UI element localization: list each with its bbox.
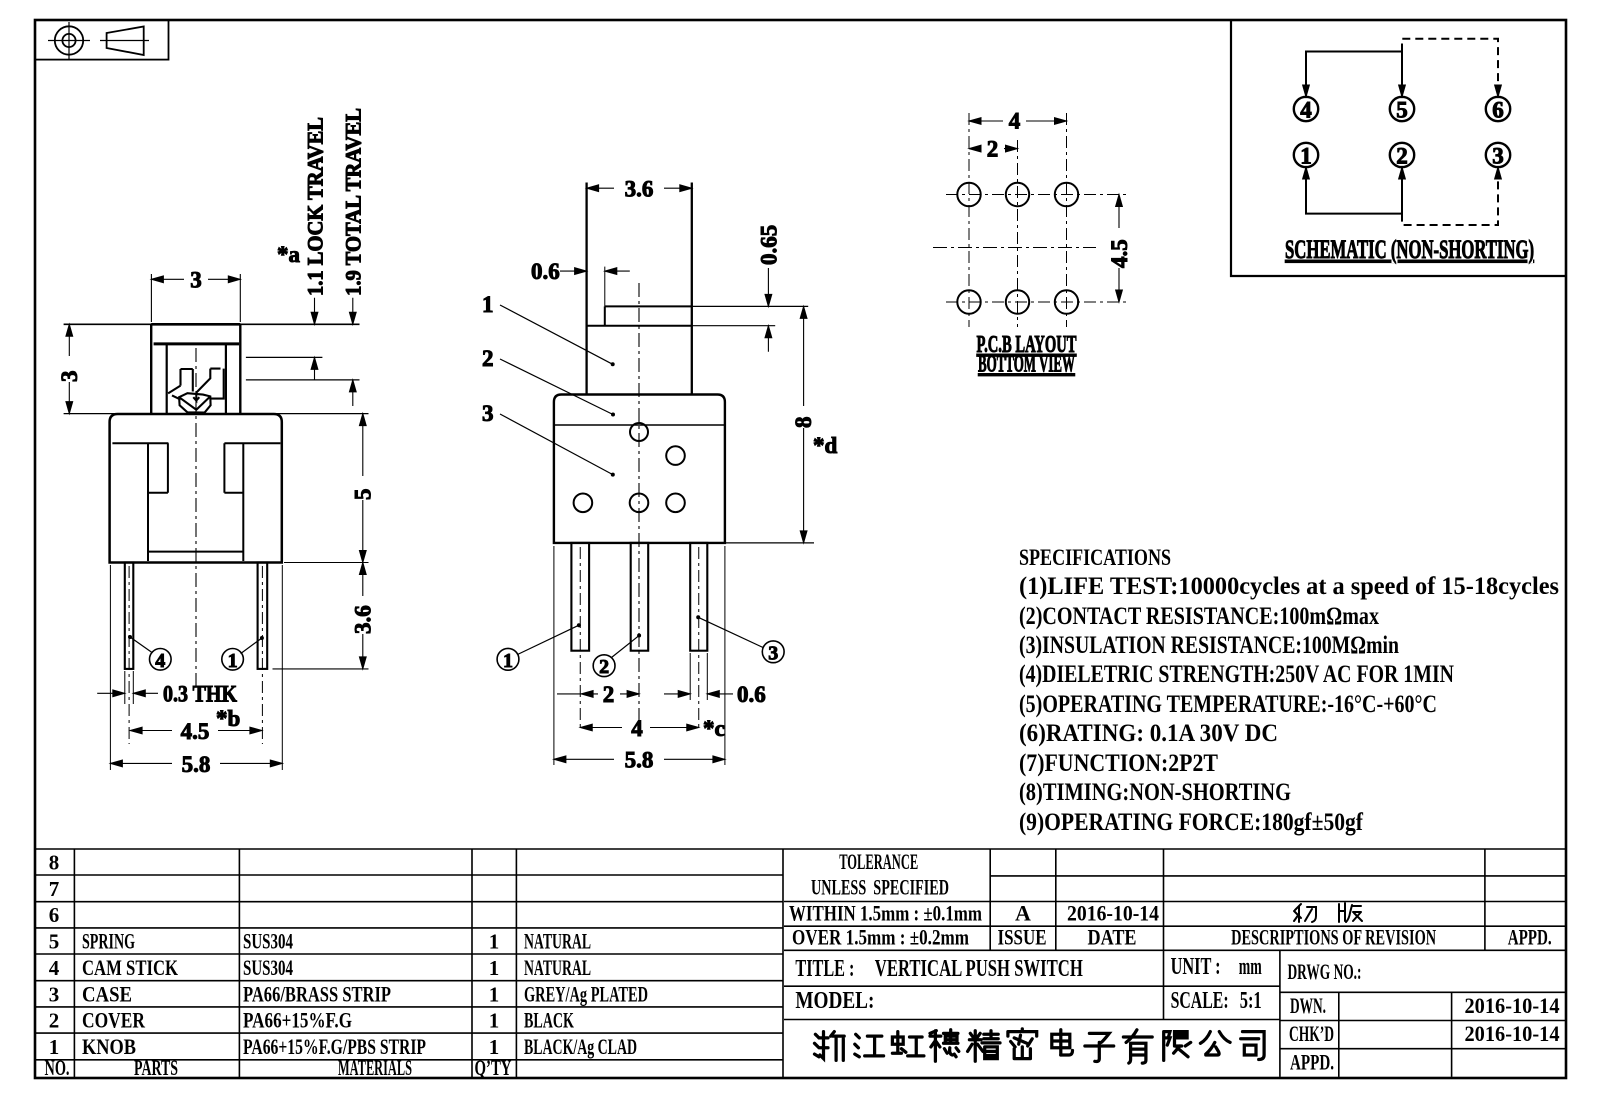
svg-text:5.8: 5.8 [182, 752, 211, 777]
leg centerlines [129, 566, 262, 744]
svg-text:CAM STICK: CAM STICK [82, 955, 178, 980]
side view leg 2 [631, 543, 649, 651]
svg-text:mm: mm [1239, 954, 1262, 980]
svg-text:4.5: 4.5 [181, 719, 210, 744]
svg-text:ISSUE: ISSUE [998, 925, 1047, 950]
company name char 虹 [892, 1032, 924, 1056]
dimension 2 (side legs) [557, 693, 639, 695]
svg-text:5.8: 5.8 [625, 748, 654, 773]
svg-text:DWN.: DWN. [1290, 993, 1326, 1018]
svg-text:*d: *d [813, 433, 838, 458]
side view leg 3 [690, 543, 707, 651]
front view case [110, 414, 282, 563]
svg-text:2016-10-14: 2016-10-14 [1465, 993, 1560, 1018]
dimension 5.8 (front) [110, 565, 282, 770]
svg-text:UNLESS SPECIFIED: UNLESS SPECIFIED [811, 875, 949, 900]
svg-text:(4)DIELETRIC STRENGTH:250V AC: (4)DIELETRIC STRENGTH:250V AC FOR 1MIN [1019, 661, 1454, 688]
svg-text:2: 2 [1396, 144, 1408, 169]
side view knob shaft [587, 183, 692, 395]
case hole right upper [666, 446, 685, 465]
case bottom extension line [725, 542, 814, 544]
svg-text:*b: *b [216, 706, 240, 731]
svg-text:1: 1 [489, 956, 500, 980]
wire 4 to 5 solid [1306, 52, 1402, 98]
pcb pad 2 [1006, 290, 1029, 313]
callout circle 1 (side) [518, 625, 579, 654]
svg-text:(2)CONTACT RESISTANCE:100mΩmax: (2)CONTACT RESISTANCE:100mΩmax [1019, 603, 1379, 630]
svg-text:(3)INSULATION RESISTANCE:100MΩ: (3)INSULATION RESISTANCE:100MΩmin [1019, 632, 1399, 659]
callout circle 3 (side) [698, 617, 763, 647]
company name char 司 [1241, 1032, 1264, 1060]
svg-text:(1)LIFE TEST:10000cycles at a: (1)LIFE TEST:10000cycles at a speed of 1… [1019, 573, 1559, 600]
pcb pad 4 [957, 183, 980, 206]
svg-text:2: 2 [482, 346, 494, 371]
callout circle 4 [130, 637, 152, 653]
case hole left [574, 494, 593, 513]
pin 5 [1390, 97, 1414, 121]
dimension 0.3 THK [125, 671, 134, 704]
svg-text:4: 4 [155, 650, 165, 672]
wire 5 to 6 dashed [1402, 39, 1498, 84]
svg-text:2016-10-14: 2016-10-14 [1465, 1021, 1560, 1046]
case hole center [630, 494, 649, 513]
svg-text:MATERIALS: MATERIALS [338, 1055, 412, 1080]
svg-text:3: 3 [57, 371, 82, 383]
svg-text:4.5: 4.5 [1107, 239, 1132, 268]
svg-text:3: 3 [482, 401, 494, 426]
svg-text:0.6: 0.6 [531, 259, 560, 284]
projection symbol cone [107, 27, 144, 56]
svg-text:2: 2 [603, 682, 615, 707]
company name char 江 [855, 1034, 884, 1057]
side view case [554, 395, 725, 543]
svg-text:5: 5 [49, 930, 60, 954]
parts table grid [35, 849, 1566, 1060]
svg-text:UNIT :: UNIT : [1171, 954, 1221, 980]
svg-text:KNOB: KNOB [82, 1034, 136, 1059]
reference line case top [64, 413, 369, 415]
side leg centerlines [580, 547, 699, 728]
dimension 4 *c [580, 727, 699, 729]
svg-text:8: 8 [49, 851, 60, 875]
svg-text:NATURAL: NATURAL [524, 929, 591, 954]
svg-text:1: 1 [489, 1009, 500, 1033]
svg-text:SUS304: SUS304 [243, 929, 293, 954]
pin 1 [1294, 143, 1318, 167]
svg-text:DRWG NO.:: DRWG NO.: [1288, 959, 1362, 984]
dimension 1.9 total travel [352, 298, 354, 406]
company name char 限 [1164, 1032, 1191, 1061]
svg-text:(6)RATING: 0.1A 30V DC: (6)RATING: 0.1A 30V DC [1019, 720, 1278, 747]
svg-text:1: 1 [489, 983, 500, 1007]
company name char 密 [1008, 1029, 1037, 1059]
svg-text:SCHEMATIC (NON-SHORTING): SCHEMATIC (NON-SHORTING) [1285, 235, 1534, 264]
dimension 2 (pcb) [969, 148, 1018, 150]
dimension 8 *d [803, 306, 805, 543]
svg-text:COVER: COVER [82, 1008, 146, 1033]
svg-text:0.65: 0.65 [757, 225, 782, 265]
svg-text:1: 1 [482, 292, 494, 317]
svg-text:5: 5 [351, 489, 376, 501]
dimension 0.65 [767, 268, 769, 352]
svg-text:3.6: 3.6 [625, 176, 654, 201]
dimension 5.8 (side) [554, 546, 725, 765]
company name char 穗 [930, 1030, 959, 1062]
svg-text:2: 2 [599, 656, 609, 678]
company name char 浙 [815, 1032, 845, 1061]
svg-text:3: 3 [49, 983, 60, 1007]
svg-text:(5)OPERATING TEMPERATURE:-16°C: (5)OPERATING TEMPERATURE:-16°C-+60°C [1019, 691, 1437, 718]
company name char 子 [1085, 1033, 1114, 1061]
svg-text:1: 1 [503, 650, 513, 672]
svg-text:0.3 THK: 0.3 THK [163, 682, 237, 707]
svg-text:7: 7 [49, 877, 60, 901]
svg-text:PARTS: PARTS [134, 1055, 178, 1080]
pcb pad centerlines vertical [968, 113, 970, 327]
svg-text:APPD.: APPD. [1290, 1050, 1334, 1075]
dimension 0.6 (step) [604, 267, 606, 307]
cover parting line [554, 424, 725, 426]
svg-text:3: 3 [768, 642, 778, 664]
svg-text:TOLERANCE: TOLERANCE [839, 849, 918, 874]
front view centerline [195, 348, 197, 686]
svg-text:1.9 TOTAL TRAVEL: 1.9 TOTAL TRAVEL [341, 108, 366, 296]
svg-text:1: 1 [489, 930, 500, 954]
front view knob inner walls [167, 344, 226, 414]
svg-text:A: A [1015, 901, 1031, 926]
svg-text:1: 1 [1300, 144, 1312, 169]
dimension 4.5 (pcb) [1118, 195, 1120, 303]
svg-text:5: 5 [1396, 98, 1408, 123]
svg-text:4: 4 [1009, 109, 1021, 134]
svg-text:DESCRIPTIONS OF REVISION: DESCRIPTIONS OF REVISION [1231, 925, 1436, 950]
svg-text:SUS304: SUS304 [243, 955, 293, 980]
projection symbol circle [55, 26, 83, 54]
svg-text:0.6: 0.6 [737, 682, 766, 707]
travel reference line C [246, 379, 360, 381]
revision text CJK: 初 [1294, 904, 1316, 922]
svg-text:1: 1 [228, 650, 238, 672]
side view centerline [638, 283, 640, 731]
front view leg 1 [258, 563, 268, 669]
dimension 3.6 (leg length) [273, 668, 369, 670]
pcb pad 6 [1055, 183, 1078, 206]
dimension 4 (pcb) [969, 120, 1067, 122]
dimension 3 (knob height, left) [68, 324, 70, 413]
svg-text:VERTICAL PUSH SWITCH: VERTICAL PUSH SWITCH [875, 956, 1083, 982]
svg-text:*a: *a [277, 242, 301, 267]
svg-text:Q’TY: Q’TY [475, 1055, 512, 1080]
svg-text:BLACK/Ag CLAD: BLACK/Ag CLAD [524, 1034, 637, 1059]
projection symbol box [35, 20, 169, 60]
pin 4 [1294, 97, 1318, 121]
callout circle 2 (side) [612, 636, 640, 658]
svg-text:1.1 LOCK TRAVEL: 1.1 LOCK TRAVEL [303, 117, 328, 296]
svg-text:SPECIFICATIONS: SPECIFICATIONS [1019, 545, 1171, 570]
wire 1 to 2 solid [1306, 167, 1402, 214]
svg-text:4: 4 [1300, 98, 1312, 123]
dimension 4.5 *b [130, 730, 262, 732]
dimension 5 (case height) [284, 562, 369, 564]
svg-text:2016-10-14: 2016-10-14 [1067, 901, 1159, 926]
svg-text:PA66/BRASS STRIP: PA66/BRASS STRIP [243, 982, 391, 1007]
svg-text:SPRING: SPRING [82, 929, 135, 954]
company name char 有 [1123, 1030, 1152, 1063]
svg-text:CASE: CASE [82, 982, 132, 1007]
company name char 精 [968, 1031, 1000, 1062]
case inner terminals [112, 443, 280, 561]
wire 2 to 3 dashed [1402, 180, 1498, 225]
svg-text:SCALE:: SCALE: [1171, 988, 1229, 1014]
pin 3 [1486, 143, 1510, 167]
svg-text:BOTTOM VIEW: BOTTOM VIEW [978, 352, 1075, 378]
svg-text:TITLE :: TITLE : [795, 956, 854, 982]
travel reference line B [246, 356, 323, 358]
svg-text:3: 3 [190, 268, 202, 293]
svg-text:PA66+15%F.G: PA66+15%F.G [243, 1008, 352, 1033]
svg-text:4: 4 [631, 716, 643, 741]
svg-text:4: 4 [49, 956, 60, 980]
revision text CJK: 版 [1339, 903, 1362, 922]
svg-text:APPD.: APPD. [1508, 925, 1552, 950]
dimension 3.6 (shaft width) [587, 187, 692, 189]
side view leg 1 [571, 543, 589, 651]
svg-text:8: 8 [791, 417, 816, 429]
case hole right lower [666, 494, 685, 513]
cam stick mechanism [168, 369, 224, 413]
pcb pad 1 [957, 290, 980, 313]
svg-text:NO.: NO. [45, 1055, 70, 1080]
svg-text:*c: *c [703, 716, 725, 741]
pin 6 [1486, 97, 1510, 121]
company name char 电 [1052, 1030, 1073, 1055]
schematic box [1231, 20, 1566, 276]
pcb pad centerlines horizontal [946, 194, 1126, 196]
svg-text:(8)TIMING:NON-SHORTING: (8)TIMING:NON-SHORTING [1019, 779, 1291, 806]
svg-text:BLACK: BLACK [524, 1008, 574, 1033]
svg-text:MODEL:: MODEL: [795, 988, 874, 1014]
svg-text:DATE: DATE [1088, 925, 1137, 950]
svg-text:OVER 1.5mm : ±0.2mm: OVER 1.5mm : ±0.2mm [792, 925, 969, 950]
pcb pad 5 [1006, 183, 1029, 206]
case hole top [630, 423, 648, 441]
svg-text:CHK’D: CHK’D [1289, 1021, 1334, 1046]
dimension 0.6 (leg width) [690, 653, 707, 700]
svg-text:(9)OPERATING FORCE:180gf±50gf: (9)OPERATING FORCE:180gf±50gf [1019, 809, 1364, 836]
svg-text:2: 2 [49, 1009, 60, 1033]
svg-text:2: 2 [987, 137, 999, 162]
svg-text:3.6: 3.6 [351, 605, 376, 634]
title block grid [784, 876, 1565, 950]
front view leg 4 [125, 563, 134, 669]
svg-text:6: 6 [1492, 98, 1504, 123]
svg-text:3: 3 [1492, 144, 1504, 169]
company name char 公 [1200, 1032, 1230, 1055]
front view knob cap [151, 324, 240, 413]
svg-text:GREY/Ag PLATED: GREY/Ag PLATED [524, 982, 648, 1007]
svg-text:5:1: 5:1 [1240, 988, 1262, 1014]
reference line knob top [64, 323, 360, 325]
dimension 3 (knob width) [151, 274, 240, 322]
pcb pad 3 [1055, 290, 1078, 313]
svg-text:6: 6 [49, 903, 60, 927]
svg-text:(7)FUNCTION:2P2T: (7)FUNCTION:2P2T [1019, 750, 1218, 777]
knob collar step lines [605, 305, 692, 307]
callout circle 1 [241, 638, 262, 654]
svg-text:WITHIN 1.5mm : ±0.1mm: WITHIN 1.5mm : ±0.1mm [789, 901, 982, 926]
dimension 1.1 lock travel [314, 298, 316, 380]
svg-text:NATURAL: NATURAL [524, 955, 591, 980]
pin 2 [1390, 143, 1414, 167]
